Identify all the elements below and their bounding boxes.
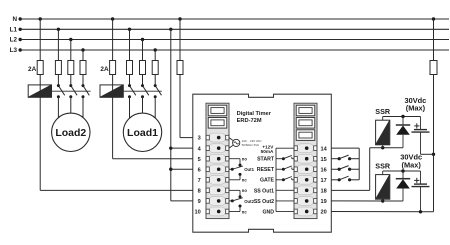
fuse F7 (Load1 L2) bbox=[140, 61, 146, 75]
junction on L2 for K1 contact 2 bbox=[141, 38, 144, 41]
svg-text:START: START bbox=[257, 157, 275, 163]
solid state relay SSR1 (box with black triangle) bbox=[382, 117, 384, 121]
svg-text:SSR: SSR bbox=[375, 161, 391, 170]
contactor K1 contact 3 (open switch) bbox=[154, 84, 157, 87]
wire terminal 18 (SS Out1) to SSR1 circuit bbox=[331, 189, 369, 191]
junction on N for K1 coil fuse bbox=[111, 17, 114, 20]
fuse F10 (DC side) bbox=[430, 61, 437, 75]
node on L1 feeder at terminal 6 row bbox=[169, 168, 172, 171]
wire L2 to fuse F7 bbox=[142, 40, 144, 61]
wire GND to terminal 20 bbox=[276, 210, 294, 212]
svg-text:10: 10 bbox=[194, 210, 200, 216]
svg-text:no: no bbox=[242, 188, 248, 193]
internal input contact GATE (pin 17) bbox=[276, 179, 283, 181]
svg-text:Out1: Out1 bbox=[244, 167, 254, 172]
battery BT2 30Vdc bbox=[420, 171, 422, 184]
wire F1 to contactor K2 coil bbox=[39, 75, 41, 86]
contactor K1 coil symbol (box with black triangle) bbox=[100, 85, 123, 97]
wire SSR1 top to battery BT1 bbox=[383, 116, 421, 118]
wire L1 to fuse F2 bbox=[57, 29, 59, 60]
wire F2 to K2 contact 1 bbox=[57, 75, 59, 86]
svg-text:SSR: SSR bbox=[375, 107, 391, 116]
node on N-fuse rail at BT1 bbox=[432, 153, 435, 156]
contactor K1 contact 1 (open switch) bbox=[128, 84, 131, 87]
svg-text:GATE: GATE bbox=[260, 178, 275, 184]
wire +12V to terminal 14 bbox=[276, 147, 294, 149]
internal input contact START (pin 15) bbox=[276, 158, 283, 160]
svg-text:50/60Hz 6VA: 50/60Hz 6VA bbox=[242, 143, 259, 147]
junction on L2 for K2 contact 2 bbox=[69, 38, 72, 41]
svg-text:7: 7 bbox=[198, 178, 201, 184]
svg-text:17: 17 bbox=[321, 178, 327, 184]
wire K1 contact 2 to Load1 bbox=[142, 97, 144, 125]
node BT2 negative on GND wire bbox=[419, 210, 422, 213]
solid state relay SSR2 (box with black triangle) bbox=[382, 171, 384, 175]
contactor K1 contact 2 (open switch) bbox=[141, 84, 144, 87]
wire L1 feed down to terminal 9 with taps bbox=[170, 29, 172, 201]
wire L1 to fuse F6 bbox=[129, 29, 131, 60]
svg-text:6: 6 bbox=[198, 167, 201, 173]
svg-text:no: no bbox=[242, 157, 248, 162]
load Load1 (motor circle) bbox=[123, 113, 161, 151]
wire K1 contact 1 to Load1 bbox=[129, 97, 131, 125]
wire K2 contact 1 to Load2 bbox=[57, 97, 59, 125]
node diode D2 cathode bbox=[401, 169, 404, 172]
svg-text:SS Out2: SS Out2 bbox=[254, 199, 274, 205]
wire N down to fuse F10 bbox=[433, 19, 435, 61]
wire F6 to K1 contact 1 bbox=[129, 75, 131, 86]
internal bus for I/O column bbox=[275, 148, 277, 211]
relay contact Out1 (SPDT, pins 5 no / 6 com / 7 nc) bbox=[229, 158, 240, 160]
fuse F1 2A (K2 coil) bbox=[37, 61, 43, 75]
battery BT1 30Vdc bbox=[420, 117, 422, 130]
diode D2 (flyback, cathode up) bbox=[402, 171, 404, 179]
svg-text:19: 19 bbox=[321, 199, 327, 205]
wire K1 contact 3 to Load1 bbox=[154, 97, 156, 125]
wire terminal 20 (GND) to DC return rail bbox=[331, 210, 433, 212]
svg-text:L2: L2 bbox=[10, 37, 18, 44]
svg-text:RESET: RESET bbox=[257, 167, 275, 173]
fuse F8 (Load1 L3) bbox=[152, 61, 158, 75]
fuse F2 (Load2 L1) bbox=[55, 61, 61, 75]
switch common rail (+12V) bbox=[358, 148, 360, 180]
svg-text:L1: L1 bbox=[10, 27, 18, 34]
wire K1 coil down to node, then right to timer terminal 5 bbox=[112, 97, 114, 158]
svg-text:(Max): (Max) bbox=[406, 104, 426, 113]
diode D1 (flyback, cathode up) bbox=[402, 117, 404, 126]
svg-text:2A: 2A bbox=[28, 66, 37, 73]
fuse F5 2A (K1 coil) bbox=[110, 61, 116, 75]
fuse F4 (Load2 L3) bbox=[80, 61, 86, 75]
internal input contact RESET (pin 16) bbox=[276, 168, 283, 170]
wire terminal 19 (SS Out2) to SSR2 circuit bbox=[331, 200, 403, 202]
contactor K2 coil symbol (box with black triangle) bbox=[28, 85, 51, 97]
N-fuse rail down to GND return corner bbox=[433, 75, 435, 212]
wire tap to terminal 4 bbox=[171, 147, 193, 149]
wire N tap down to fuse F1 bbox=[39, 19, 41, 61]
svg-text:N: N bbox=[12, 16, 17, 23]
switch S2 RESET (terminal 16 to +12V) bbox=[331, 168, 339, 170]
wire tap to terminal 6 bbox=[171, 168, 193, 170]
mechanical link K2 to contacts bbox=[52, 90, 91, 92]
wire SS Out1 to terminal 18 bbox=[276, 189, 294, 191]
wire N down to fuse F9 bbox=[179, 19, 181, 61]
node SSR2 bottom bbox=[381, 199, 384, 202]
junction on L3 for K2 contact 3 bbox=[81, 48, 84, 51]
svg-text:SS Out1: SS Out1 bbox=[254, 188, 274, 194]
mechanical link K1 to contacts bbox=[123, 90, 162, 92]
wire F9 down then right to terminal 3 bbox=[179, 75, 181, 138]
fuse F9 (timer supply) bbox=[177, 61, 183, 75]
junction on L3 for K1 contact 3 bbox=[154, 48, 157, 51]
svg-text:5: 5 bbox=[198, 157, 201, 163]
junction on N for DC-side fuse bbox=[432, 17, 435, 20]
svg-text:15: 15 bbox=[321, 157, 327, 163]
wire SS Out2 to terminal 19 bbox=[276, 200, 294, 202]
svg-text:Digital Timer: Digital Timer bbox=[237, 111, 272, 117]
svg-text:18: 18 bbox=[321, 188, 327, 194]
node diode D1 cathode bbox=[401, 115, 404, 118]
wire N tap down to fuse F5 bbox=[112, 19, 114, 61]
svg-text:50mA: 50mA bbox=[261, 149, 274, 154]
terminal strip X2 (right, terminals 14-20) bbox=[294, 103, 317, 218]
svg-text:ERD-72M: ERD-72M bbox=[237, 118, 262, 124]
svg-text:Load2: Load2 bbox=[55, 127, 86, 139]
wire SSR2 top to battery BT2 bbox=[383, 170, 421, 172]
contactor K2 contact 2 (open switch) bbox=[69, 84, 72, 87]
wire L2 to fuse F3 bbox=[70, 40, 72, 61]
fuse F6 (Load1 L1) bbox=[127, 61, 133, 75]
switch S3 GATE (terminal 17 to +12V) bbox=[331, 179, 339, 181]
svg-text:2A: 2A bbox=[100, 66, 109, 73]
svg-text:GND: GND bbox=[262, 209, 274, 215]
wire L3 to fuse F8 bbox=[154, 50, 156, 61]
wire BT1 negative to N-fuse rail bbox=[421, 153, 434, 155]
load Load2 (motor circle) bbox=[52, 113, 90, 151]
contactor K2 contact 1 (open switch) bbox=[57, 84, 60, 87]
AC supply symbol (circle with sine) for terminals 3-4 bbox=[229, 138, 233, 141]
node on L1 feeder at terminal 4 row bbox=[169, 146, 172, 149]
wire F5 to contactor K1 coil bbox=[112, 75, 114, 86]
svg-text:16: 16 bbox=[321, 167, 327, 173]
junction on L1 for timer feed bbox=[169, 28, 172, 31]
wire F7 to K1 contact 2 bbox=[142, 75, 144, 86]
svg-text:3: 3 bbox=[198, 136, 201, 142]
terminal strip X1 (left, terminals 3-10) bbox=[206, 103, 229, 218]
svg-text:9: 9 bbox=[198, 199, 201, 205]
wire F4 to K2 contact 3 bbox=[82, 75, 84, 86]
svg-text:20: 20 bbox=[321, 210, 327, 216]
wire F3 to K2 contact 2 bbox=[70, 75, 72, 86]
wire K2 contact 3 to Load2 bbox=[82, 97, 84, 125]
wire F8 to K1 contact 3 bbox=[154, 75, 156, 86]
junction on N for timer supply fuse bbox=[178, 17, 181, 20]
wire L3 to fuse F4 bbox=[82, 50, 84, 61]
relay contact Out2 (SPDT, pins 8 no / 9 com / 10 nc) bbox=[229, 189, 240, 191]
switch S1 START (terminal 15 to +12V) bbox=[331, 158, 339, 160]
junction on L1 for K2 contact 1 bbox=[57, 28, 60, 31]
timer unit U1 ERD-72M outline (case with top/bottom tabs) bbox=[193, 94, 331, 232]
svg-text:L3: L3 bbox=[10, 47, 18, 54]
junction on N for K2 coil fuse bbox=[39, 17, 42, 20]
svg-text:14: 14 bbox=[321, 146, 328, 152]
svg-text:8: 8 bbox=[198, 188, 201, 194]
svg-text:nc: nc bbox=[242, 209, 248, 214]
contactor K2 contact 3 (open switch) bbox=[82, 84, 85, 87]
junction on L1 for K1 contact 1 bbox=[128, 28, 131, 31]
wire K2 contact 2 to Load2 bbox=[70, 97, 72, 125]
svg-text:(Max): (Max) bbox=[402, 160, 422, 169]
wire terminal 14 to switch common rail bbox=[331, 147, 359, 149]
svg-text:nc: nc bbox=[242, 178, 248, 183]
wire K2 coil down to node, then right to timer terminal 8 bbox=[39, 97, 41, 190]
svg-text:Load1: Load1 bbox=[127, 127, 158, 139]
node SSR1 bottom bbox=[381, 146, 384, 149]
fuse F3 (Load2 L2) bbox=[68, 61, 74, 75]
